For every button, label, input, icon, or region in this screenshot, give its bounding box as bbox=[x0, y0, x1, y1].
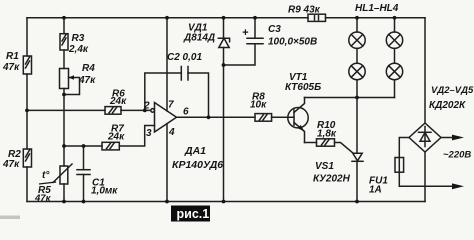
node junction C1 top bbox=[82, 144, 86, 148]
svg-text:47к: 47к bbox=[34, 193, 52, 204]
lamp HL3 bbox=[386, 18, 402, 49]
wire mains lower bbox=[399, 183, 464, 189]
resistor R6 bbox=[105, 107, 151, 115]
capacitor C3 bbox=[224, 18, 264, 65]
svg-text:R4: R4 bbox=[82, 63, 95, 74]
wire bridge AC right to mains bbox=[441, 135, 464, 141]
resistor R1 bbox=[23, 18, 31, 149]
node junction thyristor anode bbox=[355, 96, 359, 100]
svg-text:C3: C3 bbox=[268, 24, 281, 35]
node junction R1 R2 bbox=[25, 109, 29, 113]
svg-text:7: 7 bbox=[168, 100, 174, 111]
node junction bottom VD1 bbox=[222, 200, 226, 204]
label figure caption bbox=[171, 206, 210, 222]
wire collector to lamps bbox=[305, 97, 395, 99]
fuse FU1 bbox=[395, 138, 409, 187]
svg-text:R1: R1 bbox=[6, 51, 19, 62]
node junction top rail HL1 bbox=[355, 16, 359, 20]
node junction bottom R5 bbox=[62, 200, 66, 204]
svg-text:R9 43к: R9 43к bbox=[288, 5, 321, 16]
svg-text:6: 6 bbox=[183, 107, 189, 118]
capacitor C1 bbox=[77, 146, 90, 202]
node junction feedback tap bbox=[143, 109, 147, 113]
svg-text:VS1: VS1 bbox=[315, 161, 334, 172]
op-amp DA1 bbox=[151, 103, 177, 133]
node junction top rail pin7 bbox=[165, 16, 169, 20]
svg-text:C2 0,01: C2 0,01 bbox=[167, 52, 202, 63]
svg-text:10к: 10к bbox=[250, 100, 267, 111]
node junction top rail R3 bbox=[62, 16, 66, 20]
resistor R8 bbox=[255, 114, 294, 122]
wire op-amp output bbox=[177, 116, 256, 118]
node junction bottom C1 bbox=[82, 200, 86, 204]
svg-text:КД202К: КД202К bbox=[429, 100, 466, 111]
svg-text:24к: 24к bbox=[107, 132, 125, 143]
resistor R3 bbox=[60, 18, 68, 69]
svg-text:КУ202Н: КУ202Н bbox=[313, 174, 351, 185]
svg-text:Д814Д: Д814Д bbox=[183, 33, 215, 44]
lamp HL2 bbox=[349, 48, 365, 97]
svg-text:КР140УД6: КР140УД6 bbox=[172, 159, 223, 171]
svg-text:2: 2 bbox=[143, 101, 150, 112]
wire bottom rail bbox=[27, 201, 425, 203]
thermistor R5 bbox=[53, 146, 72, 202]
node junction R4 wiper bbox=[62, 93, 66, 97]
bridge rectifier VD2-VD5 bbox=[409, 18, 441, 152]
resistor R7 bbox=[102, 142, 119, 150]
node junction bottom pin4 bbox=[165, 200, 169, 204]
node junction top rail HL3 bbox=[393, 16, 397, 20]
potentiometer R4 bbox=[60, 69, 80, 147]
capacitor C2 feedback bbox=[145, 67, 209, 118]
node junction C3 bottom bbox=[222, 63, 226, 67]
thyristor VS1 bbox=[352, 98, 363, 202]
wire R6 input bbox=[27, 109, 105, 111]
scan artifact bottom-left streak bbox=[0, 216, 20, 220]
wire pin4 ground bbox=[166, 124, 168, 202]
svg-text:ДА1: ДА1 bbox=[184, 145, 206, 157]
node junction C2 output bbox=[207, 115, 211, 119]
lamp HL1 bbox=[349, 18, 365, 49]
svg-text:100,0×50В: 100,0×50В bbox=[268, 37, 317, 48]
node junction bottom VS1 bbox=[355, 200, 359, 204]
transistor VT1 bbox=[288, 98, 308, 143]
svg-text:1А: 1А bbox=[369, 185, 382, 196]
wire top rail left segment bbox=[27, 17, 308, 19]
resistor R2 bbox=[23, 149, 31, 202]
resistor R9 bbox=[308, 14, 326, 21]
wire pin7 supply bbox=[166, 18, 168, 111]
node junction R4 R5 R7 bbox=[62, 144, 66, 148]
node junction top rail VD1 bbox=[222, 16, 226, 20]
svg-text:~220В: ~220В bbox=[443, 150, 471, 161]
node junction top rail C3 bbox=[253, 16, 257, 20]
svg-text:3: 3 bbox=[146, 128, 152, 139]
svg-text:КТ605Б: КТ605Б bbox=[285, 82, 321, 93]
zener diode VD1 bbox=[218, 18, 229, 202]
svg-text:2,4к: 2,4к bbox=[68, 44, 89, 55]
svg-text:1,8к: 1,8к bbox=[317, 129, 337, 140]
svg-text:47к: 47к bbox=[2, 159, 20, 170]
svg-text:рис.1: рис.1 bbox=[177, 207, 210, 221]
wire top rail right segment bbox=[326, 17, 426, 19]
svg-text:HL1–HL4: HL1–HL4 bbox=[355, 3, 399, 14]
wire bridge minus to bottom rail bbox=[424, 152, 426, 202]
svg-text:VД2–VД5: VД2–VД5 bbox=[431, 85, 474, 96]
lamp HL4 bbox=[386, 48, 402, 97]
svg-text:t°: t° bbox=[42, 170, 50, 181]
svg-text:4: 4 bbox=[168, 127, 175, 138]
svg-text:1,0мк: 1,0мк bbox=[91, 186, 118, 197]
svg-text:+: + bbox=[242, 27, 249, 39]
svg-text:R3: R3 bbox=[72, 33, 85, 44]
svg-text:47к: 47к bbox=[78, 75, 96, 86]
svg-text:24к: 24к bbox=[109, 96, 127, 107]
wire R7 to pin3 bbox=[64, 145, 102, 147]
resistor R10 bbox=[305, 139, 354, 154]
svg-text:47к: 47к bbox=[2, 62, 20, 73]
